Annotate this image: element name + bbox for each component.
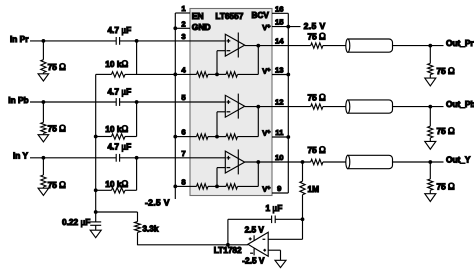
resistor R3d 75 Ohm output termination [428, 162, 433, 194]
wire U2 -input [268, 219, 302, 239]
pin 2 label GND [192, 22, 211, 32]
wire to cable ch3 [323, 161, 346, 163]
pin number 7 [181, 149, 185, 158]
internal resistor R2f2 [217, 134, 258, 139]
svg-text:75 Ω: 75 Ω [48, 62, 67, 72]
pin 16 label BCV [252, 11, 270, 20]
ground below R3d [425, 194, 436, 202]
junction C5-output [226, 243, 230, 247]
pin 9 label V+ [262, 184, 270, 193]
junction bias-10k ch2 [94, 135, 98, 139]
svg-text:In Y: In Y [13, 151, 29, 161]
pin number 12 [275, 98, 284, 107]
svg-text:75 Ω: 75 Ω [437, 66, 456, 76]
junction In Y input [42, 156, 46, 160]
op-amp A1 plus input sign [227, 39, 231, 43]
svg-text:10 kΩ: 10 kΩ [105, 124, 128, 134]
resistor R2d 75 Ohm output termination [428, 107, 433, 142]
junction In Pb input [42, 100, 46, 104]
internal resistor R3f1 [190, 184, 217, 189]
wire node B2 down [136, 102, 138, 137]
pin number 8 [181, 178, 186, 187]
wire left rail to -2.5V [174, 13, 176, 199]
capacitor C3 value label 4.7uF [108, 141, 132, 151]
capacitor C1 4.7uF coupling [116, 37, 119, 45]
resistor R1a 75 Ohm input termination [41, 41, 46, 74]
junction pin11-rail [286, 135, 290, 139]
wire C5 to U2 output [227, 219, 229, 245]
net 2.5V label at U2 [245, 224, 265, 234]
net -2.5V label at U2 [242, 256, 265, 266]
svg-text:4.7 μF: 4.7 μF [108, 141, 132, 151]
pin number 11 [275, 128, 284, 137]
ground below R2d [425, 141, 436, 149]
op-amp A3 triangle [225, 151, 244, 173]
node In Pr label [10, 34, 29, 44]
wire to cable ch1 [323, 45, 346, 47]
svg-text:0.22 μF: 0.22 μF [62, 217, 90, 227]
capacitor C2 value label 4.7uF [108, 87, 132, 97]
junction 1M top [301, 160, 305, 164]
wire amp output ch3 [245, 161, 311, 163]
junction node B1 [135, 39, 139, 43]
cable symbol ch1 [346, 39, 393, 52]
resistor R2a value label 75 Ohm [48, 123, 67, 133]
node Out_Y label [446, 154, 471, 164]
resistor R1b value label 10k [105, 59, 128, 69]
U2 label LT1782 [214, 245, 242, 255]
svg-text:75 Ω: 75 Ω [308, 93, 327, 103]
internal resistor R1f1 [190, 72, 217, 77]
svg-text:1: 1 [181, 4, 186, 13]
svg-text:3.3k: 3.3k [142, 224, 159, 234]
wire cable to output ch3 [393, 161, 444, 163]
junction pin2-rail [173, 26, 177, 30]
wire node B1 down [136, 41, 138, 75]
pin number 15 [275, 18, 284, 27]
svg-text:BCV: BCV [252, 11, 270, 20]
svg-text:4.7 μF: 4.7 μF [108, 87, 132, 97]
junction output-feedback ch1 [256, 44, 260, 48]
svg-text:16: 16 [275, 4, 284, 13]
capacitor C2 4.7uF coupling [116, 98, 119, 106]
pin number 14 [275, 37, 284, 46]
wire In Pb row [30, 101, 225, 103]
U2 V- supply stub [253, 248, 255, 255]
junction output node ch3 [428, 160, 432, 164]
resistor R11 value label 1M [308, 184, 320, 194]
svg-text:Out_Pr: Out_Pr [446, 38, 474, 48]
resistor R1c 75 Ohm series [311, 43, 323, 48]
U2 inverting input sign [263, 238, 266, 240]
op-amp A3 plus input sign [227, 156, 231, 160]
wire node B3 down [136, 158, 138, 191]
svg-text:2.5 V: 2.5 V [245, 224, 265, 234]
junction feedback tap ch3 [215, 185, 219, 189]
wire pin 13 stub [272, 74, 288, 76]
pin number 16 [275, 4, 284, 13]
resistor R2d value label 75 Ohm [437, 126, 456, 136]
U2 V+ supply stub [253, 235, 255, 241]
wire amp output ch2 [245, 106, 311, 108]
pin 13 label V+ [262, 66, 270, 75]
pin 15 label V+ [262, 23, 270, 32]
svg-text:Out_Y: Out_Y [446, 154, 471, 164]
op-amp A1 supply line [237, 33, 239, 58]
pin number 13 [275, 66, 284, 75]
resistor R3a 75 Ohm input termination [41, 158, 46, 188]
op-amp A2 plus input sign [227, 100, 231, 104]
capacitor C1 value label 4.7uF [108, 25, 132, 35]
op-amp A2 triangle [225, 95, 244, 117]
pin number 10 [275, 153, 284, 162]
resistor R11 1M [300, 162, 305, 219]
junction pin8-rail [173, 185, 177, 189]
wire U2 +input to ground [268, 250, 280, 260]
resistor R10 3.3k [135, 222, 141, 246]
wire pin 2 GND stub [175, 27, 190, 29]
node In Y label [13, 151, 29, 161]
junction output-feedback ch3 [256, 160, 260, 164]
junction pin6-rail [173, 135, 177, 139]
resistor R1a value label 75 Ohm [48, 62, 67, 72]
ground below R1a [38, 74, 49, 81]
svg-text:1 μF: 1 μF [266, 203, 283, 213]
wire inverting input ch3 [217, 168, 225, 187]
capacitor C3 4.7uF coupling [116, 154, 119, 162]
junction pin15-rail [286, 25, 290, 29]
wire pin 15 to 2.5V [272, 26, 301, 28]
wire pin 6 feedback stub [175, 136, 190, 138]
svg-text:In Pb: In Pb [8, 95, 28, 105]
svg-text:In Pr: In Pr [10, 34, 29, 44]
junction In Pr input [42, 39, 46, 43]
capacitor C4 0.22uF [90, 212, 101, 230]
ground below C4 [90, 230, 101, 238]
svg-text:6: 6 [181, 128, 185, 137]
wire to cable ch2 [323, 106, 346, 108]
internal resistor R3f2 [217, 184, 258, 189]
svg-text:2: 2 [181, 19, 185, 28]
svg-text:Out_Pb: Out_Pb [446, 99, 474, 109]
pin number 4 [181, 66, 186, 75]
junction pin13-rail [286, 73, 290, 77]
wire bias node to 3.3k [96, 212, 138, 222]
svg-text:75 Ω: 75 Ω [437, 126, 456, 136]
ground below R1d [425, 78, 436, 86]
svg-text:10 kΩ: 10 kΩ [105, 59, 128, 69]
svg-text:3: 3 [181, 32, 185, 41]
wire feedback to output ch3 [257, 162, 259, 186]
resistor R1b 10k bias [96, 72, 190, 77]
resistor R2a 75 Ohm input termination [41, 102, 46, 135]
resistor R3b value label 10k [105, 179, 128, 189]
svg-text:13: 13 [275, 66, 284, 75]
resistor R3d value label 75 Ohm [437, 182, 456, 192]
svg-text:5: 5 [181, 93, 186, 102]
junction node B2 [135, 100, 139, 104]
svg-text:10: 10 [275, 153, 284, 162]
svg-text:7: 7 [181, 149, 185, 158]
svg-text:75 Ω: 75 Ω [308, 145, 327, 155]
capacitor C5 value label 1uF [266, 203, 283, 213]
internal resistor R1f2 [217, 72, 258, 77]
pin number 1 [181, 4, 186, 13]
svg-text:75 Ω: 75 Ω [48, 123, 67, 133]
resistor R1d 75 Ohm output termination [428, 46, 433, 79]
node Out_Pr label [446, 38, 474, 48]
ground at U2 +input [275, 260, 286, 267]
svg-text:15: 15 [275, 18, 284, 27]
U2 non-inverting input sign [263, 249, 266, 252]
op-amp A1 triangle [225, 34, 244, 56]
op-amp U1 LT6557 chip body [190, 9, 272, 196]
op-amp A3 supply line [237, 149, 239, 174]
cable symbol ch3 [346, 155, 393, 168]
resistor R3b 10k bias [96, 188, 137, 193]
svg-text:14: 14 [275, 37, 284, 46]
op-amp A2 minus input sign [227, 111, 231, 113]
junction node B3 [135, 156, 139, 160]
U2 V+ supply plus sign [249, 237, 252, 240]
node Out_Pb label [446, 99, 474, 109]
pin number 6 [181, 128, 185, 137]
U1 label LT6557 [215, 11, 243, 21]
wire inverting input ch1 [217, 51, 225, 75]
svg-text:75 Ω: 75 Ω [437, 182, 456, 192]
svg-text:4: 4 [181, 66, 186, 75]
op-amp A1 minus input sign [227, 50, 231, 52]
svg-text:1M: 1M [308, 184, 320, 194]
junction feedback tap ch2 [215, 135, 219, 139]
resistor R3c value label 75 Ohm [308, 145, 327, 155]
pin number 5 [181, 93, 186, 102]
internal resistor R2f1 [190, 134, 217, 139]
svg-text:12: 12 [275, 98, 284, 107]
resistor R3c 75 Ohm series [311, 159, 323, 164]
pin 11 label V+ [262, 128, 270, 137]
junction feedback tap ch1 [215, 73, 219, 77]
resistor R1d value label 75 Ohm [437, 66, 456, 76]
wire pin 11 stub [272, 136, 288, 138]
junction output node ch1 [428, 44, 432, 48]
resistor R2b value label 10k [105, 124, 128, 134]
wire cable to output ch1 [393, 45, 444, 47]
ground below R2a [38, 135, 49, 142]
net -2.5V label [145, 197, 170, 207]
wire pin 9 stub [272, 192, 288, 194]
resistor R2c value label 75 Ohm [308, 93, 327, 103]
pin number 2 [181, 19, 185, 28]
pin number 3 [181, 32, 185, 41]
capacitor C5 1uF [228, 216, 303, 224]
resistor R1c value label 75 Ohm [308, 32, 327, 42]
wire pin 16 BCV stub [272, 12, 288, 14]
wire feedback to output ch1 [257, 46, 259, 75]
junction pin4-rail [173, 73, 177, 77]
op-amp U2 LT1782 triangle [248, 232, 268, 256]
wire cable to output ch2 [393, 106, 444, 108]
capacitor C4 value label 0.22uF [62, 217, 90, 227]
svg-text:9: 9 [277, 184, 281, 193]
ground below R3a [38, 188, 49, 195]
wire In Y row [30, 157, 225, 159]
resistor R2c 75 Ohm series [311, 104, 323, 109]
wire inverting input ch2 [217, 112, 225, 137]
svg-text:EN: EN [192, 11, 204, 21]
wire pin 1 EN stub [175, 12, 190, 14]
svg-text:-2.5 V: -2.5 V [242, 256, 265, 266]
resistor R2b 10k bias [96, 134, 137, 139]
wire 3.3k to U2 output [138, 244, 248, 246]
junction bias bottom node [94, 210, 98, 214]
junction bias-10k ch3 [94, 188, 98, 192]
svg-text:10 kΩ: 10 kΩ [105, 179, 128, 189]
svg-text:GND: GND [192, 22, 211, 32]
op-amp A3 minus input sign [227, 167, 231, 169]
svg-text:75 Ω: 75 Ω [48, 180, 67, 190]
junction output node ch2 [428, 105, 432, 109]
cable symbol ch2 [346, 100, 393, 113]
pin number 9 [277, 184, 281, 193]
svg-text:-2.5 V: -2.5 V [145, 197, 170, 207]
svg-text:4.7 μF: 4.7 μF [108, 25, 132, 35]
op-amp A2 supply line [237, 94, 239, 119]
node In Pb label [8, 95, 28, 105]
svg-text:LT6557: LT6557 [215, 11, 243, 21]
resistor R10 value label 3.3k [142, 224, 159, 234]
wire amp output ch1 [245, 45, 311, 47]
wire bias rail [95, 74, 97, 212]
svg-text:11: 11 [275, 128, 284, 137]
net 2.5V label [304, 21, 326, 31]
pin 1 label EN [192, 11, 204, 21]
svg-text:75 Ω: 75 Ω [308, 32, 327, 42]
svg-text:2.5 V: 2.5 V [304, 21, 326, 31]
svg-text:8: 8 [181, 178, 186, 187]
wire In Pr row [30, 40, 225, 42]
wire pin 8 feedback stub [175, 185, 190, 187]
wire right V+ rail [287, 27, 289, 193]
junction output-feedback ch2 [256, 105, 260, 109]
junction C5-1M [301, 217, 305, 221]
U2 V- supply minus sign [250, 252, 253, 254]
wire feedback to output ch2 [257, 107, 259, 137]
resistor R3a value label 75 Ohm [48, 180, 67, 190]
wire BCV to V+ rail [287, 13, 289, 26]
